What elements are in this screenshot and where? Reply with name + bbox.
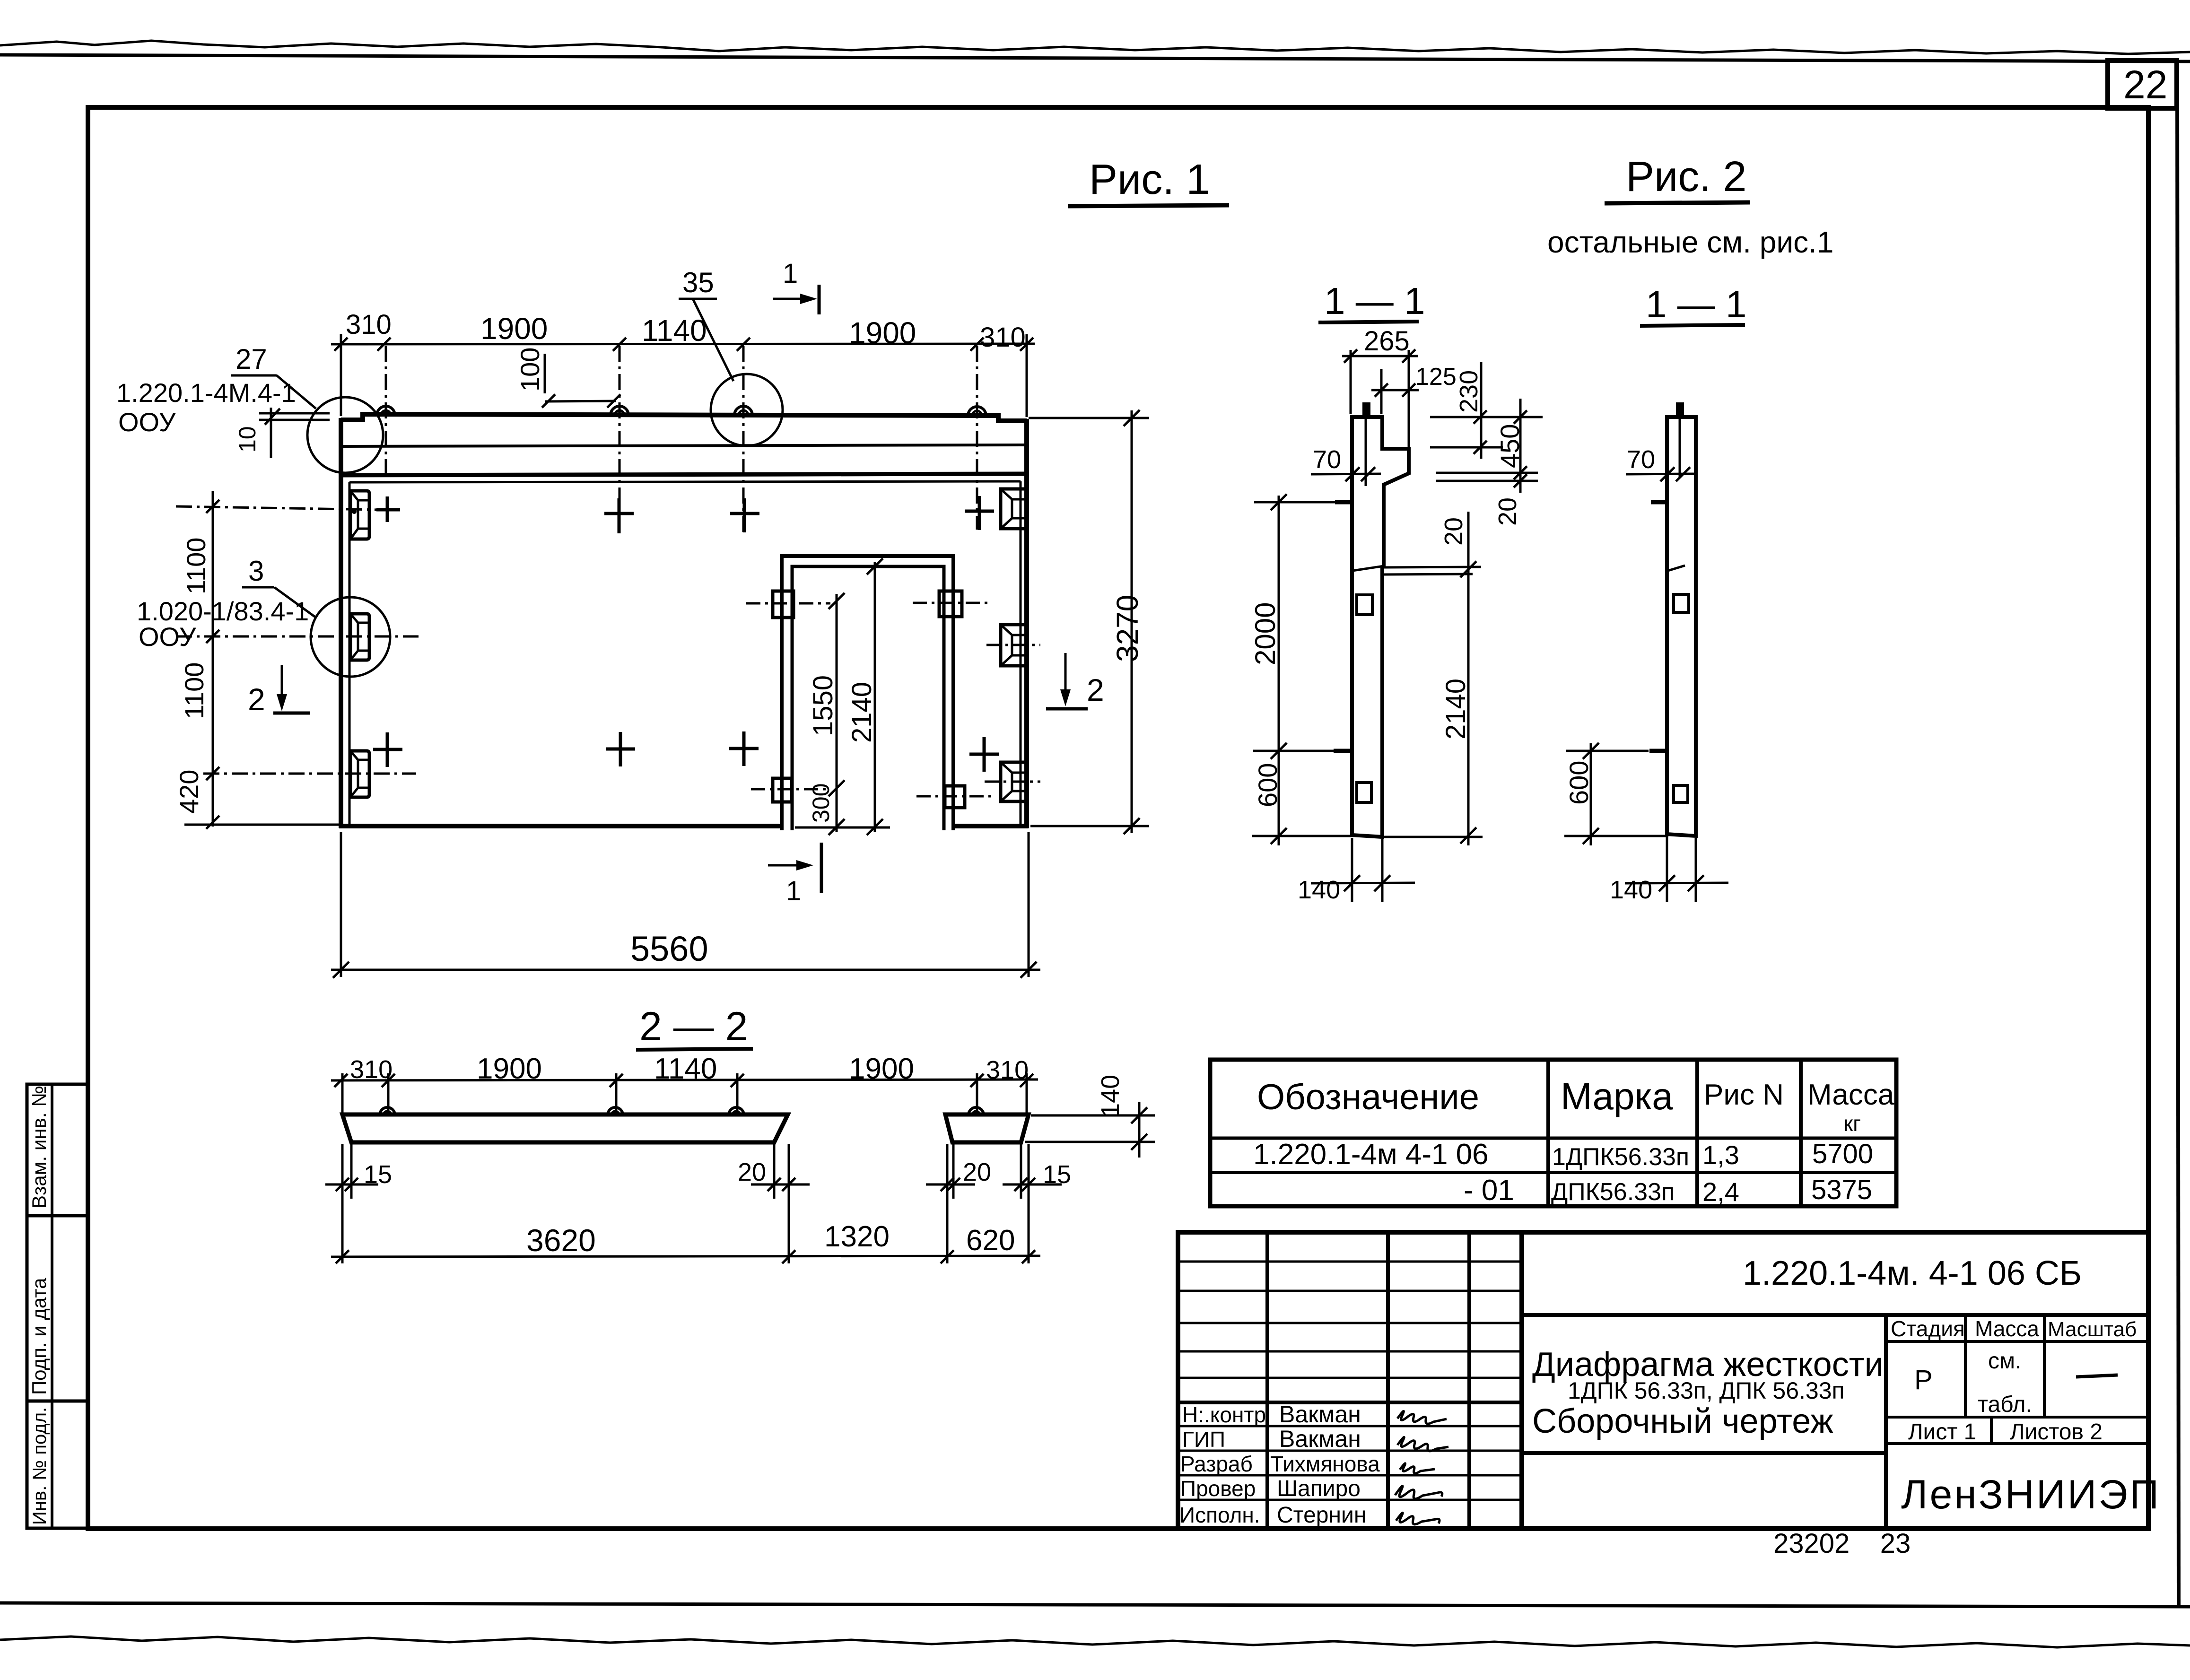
recess right line <box>1020 481 1022 825</box>
spec row line <box>1210 1171 1896 1174</box>
dim 5560 line <box>331 969 1040 971</box>
embed plate left 3 <box>350 751 369 797</box>
s11L ledge ext b <box>1384 574 1473 575</box>
s22 140 ext bottom <box>1025 1141 1155 1143</box>
s22 20 left ext a <box>773 1144 776 1199</box>
svg-text:20: 20 <box>963 1158 991 1186</box>
s11L 2000 tick bottom <box>1271 828 1287 844</box>
chain ext dashdot 2 <box>176 635 419 638</box>
s11R 600 tick top <box>1583 743 1599 759</box>
s22 lower dim line <box>331 1256 1040 1257</box>
svg-text:1.220.1-4м. 4-1 06 СБ: 1.220.1-4м. 4-1 06 СБ <box>1743 1254 2082 1292</box>
svg-text:Сборочный чертеж: Сборочный чертеж <box>1532 1402 1833 1440</box>
cross r2c1 <box>373 732 402 767</box>
s22 tick f <box>1020 1074 1033 1087</box>
s22 ext d <box>736 1073 739 1116</box>
s22 20 left tick b <box>782 1178 795 1191</box>
svg-text:3: 3 <box>248 555 264 587</box>
svg-text:1,3: 1,3 <box>1702 1140 1739 1170</box>
s11L tick hline top a <box>1474 410 1487 424</box>
embed plate right 1 <box>1001 489 1025 529</box>
svg-text:15: 15 <box>364 1160 392 1189</box>
svg-text:2: 2 <box>248 682 265 717</box>
spec col Марка <box>1546 1060 1550 1206</box>
svg-text:1 — 1: 1 — 1 <box>1324 280 1425 322</box>
svg-text:5375: 5375 <box>1811 1175 1872 1205</box>
spec col Рис N <box>1695 1060 1699 1206</box>
s11L vline 450 <box>1519 399 1522 493</box>
svg-text:27: 27 <box>236 343 267 375</box>
s22 lower tick a <box>336 1250 349 1263</box>
lifting loop 4 <box>968 407 986 416</box>
svg-text:Р: Р <box>1914 1365 1933 1395</box>
s11L dim 70 line <box>1311 474 1381 474</box>
svg-text:1.220.1-4м 4-1 06: 1.220.1-4м 4-1 06 <box>1253 1138 1489 1171</box>
sheet inner frame <box>88 107 2148 1529</box>
s11L 265 tick b <box>1402 349 1415 363</box>
section mark 2 top arrowhead <box>277 694 287 711</box>
header Стадия Масса Масштаб row line <box>1886 1340 2148 1343</box>
s11L tick hline top b <box>1514 410 1527 424</box>
section mark 1 bottom arrowhead <box>796 860 813 870</box>
s11L ext 600 top <box>1253 750 1335 752</box>
s11L 70 tick a <box>1345 467 1360 481</box>
s11L 125 tick b <box>1402 383 1415 397</box>
svg-text:2140: 2140 <box>846 682 877 743</box>
chain tick 4 <box>206 816 219 829</box>
s11L embed square 1 <box>1357 595 1372 615</box>
svg-text:кг: кг <box>1843 1111 1861 1136</box>
svg-text:Шапиро: Шапиро <box>1277 1476 1361 1501</box>
door embed bottom right axis <box>916 795 993 798</box>
s22 15 left ext a <box>341 1144 344 1263</box>
s22 ext c <box>615 1073 618 1116</box>
spec table outline <box>1210 1060 1896 1206</box>
svg-text:1100: 1100 <box>181 538 211 594</box>
strip divider vertical <box>51 1084 53 1528</box>
tick 2140 top <box>867 558 883 575</box>
s11L dim 2000-600 line <box>1278 496 1280 845</box>
ext 3270 top <box>1029 417 1149 419</box>
s22 15 left tick b <box>345 1178 358 1191</box>
svg-text:1.220.1-4М.4-1: 1.220.1-4М.4-1 <box>116 378 296 408</box>
svg-text:15: 15 <box>1043 1160 1071 1189</box>
embed plate left 1 dot <box>352 509 357 514</box>
svg-text:Инв. № подл.: Инв. № подл. <box>29 1407 50 1525</box>
svg-text:2: 2 <box>1087 672 1104 707</box>
svg-text:Взам. инв. №: Взам. инв. № <box>28 1086 50 1209</box>
cross r2c2 <box>606 732 635 766</box>
svg-text:Рис. 2: Рис. 2 <box>1626 153 1746 200</box>
ruled line top <box>0 55 2190 61</box>
svg-text:140: 140 <box>1096 1075 1125 1117</box>
s11L dim 265 line <box>1342 355 1418 357</box>
s11L ledge ext a <box>1384 567 1481 567</box>
s22 140 tick bottom <box>1131 1134 1147 1150</box>
embed plate right 2 axis <box>986 644 1040 646</box>
section mark 1 top arrow <box>773 298 807 300</box>
signature 1 <box>1397 1411 1447 1424</box>
s22 140 ext top <box>1031 1114 1155 1117</box>
chain tick 2 <box>206 630 219 643</box>
section mark 2 bottom bar <box>1046 707 1088 711</box>
detail circle 35 <box>711 374 783 446</box>
ext 2140 top <box>828 566 888 568</box>
section mark 1 top bar <box>818 285 821 314</box>
svg-text:3620: 3620 <box>526 1223 596 1258</box>
embed plate right 2 inner <box>1001 625 1025 666</box>
loop 4 centerline <box>976 346 978 530</box>
tick 310 right b <box>1020 338 1033 351</box>
tick 5560 right <box>1021 962 1037 978</box>
dim 10 tick <box>265 409 280 425</box>
section mark 2 bottom arrow <box>1064 653 1067 696</box>
s22 tick a <box>334 1074 348 1087</box>
s11L 2140 tick bottom <box>1460 827 1476 844</box>
tick 310 left b <box>377 338 391 351</box>
dim 2140 line <box>874 562 876 832</box>
svg-text:ГИП: ГИП <box>1182 1427 1225 1452</box>
recess left line <box>349 482 351 825</box>
lifting loop 1 <box>377 406 395 415</box>
s11R dim 600 line <box>1590 743 1592 845</box>
recess top line <box>349 481 1021 482</box>
s11L 70 tick b <box>1361 467 1375 481</box>
s11L 140 dim line <box>1311 883 1415 883</box>
svg-text:450: 450 <box>1495 424 1525 468</box>
embed plate left 2 inner <box>350 614 369 660</box>
s11R loop wire inner line <box>1679 418 1681 478</box>
lifting loop 2 <box>611 406 628 415</box>
svg-text:Подп. и дата: Подп. и дата <box>28 1278 50 1395</box>
torn paper edge top <box>0 41 2190 54</box>
cross r2c4 <box>969 737 999 772</box>
s11R pin bottom <box>1649 749 1667 753</box>
svg-text:1900: 1900 <box>849 1053 914 1085</box>
section mark 1 top arrowhead <box>800 294 817 304</box>
detail circle 3 <box>311 597 390 677</box>
embed plate left 1 <box>350 491 369 539</box>
tick 1140 b <box>737 338 750 351</box>
outer right border <box>2177 61 2179 1606</box>
loop 3 centerline <box>742 346 745 534</box>
s11L 140 tick b <box>1374 875 1390 891</box>
svg-text:10: 10 <box>234 426 261 453</box>
s22 lower tick b <box>782 1250 795 1263</box>
face top line <box>341 474 1027 475</box>
door embed top left <box>773 591 794 618</box>
s11L 2000 tick top <box>1271 494 1287 510</box>
svg-text:ДПК56.33п: ДПК56.33п <box>1551 1178 1675 1206</box>
section mark 2 bottom arrowhead <box>1060 689 1071 706</box>
svg-text:2 — 2: 2 — 2 <box>639 1004 748 1049</box>
strip cell Инв. № подл. <box>27 1401 87 1528</box>
s11R pin top <box>1651 500 1667 505</box>
section mark 1 bottom arrow <box>768 864 803 867</box>
cross r1c4 <box>965 496 994 530</box>
svg-text:1140: 1140 <box>642 313 707 348</box>
svg-text:70: 70 <box>1627 445 1655 474</box>
s22 20 right tick a <box>941 1178 954 1191</box>
s11L 265 tick a <box>1344 349 1357 363</box>
svg-text:600: 600 <box>1253 763 1283 807</box>
s22 15 right dim line <box>1003 1184 1062 1186</box>
svg-text:125: 125 <box>1415 363 1457 391</box>
s11R 140 dim line <box>1625 883 1728 883</box>
svg-text:Масштаб: Масштаб <box>2048 1318 2137 1341</box>
door embed bottom left <box>773 778 792 802</box>
signature 2 <box>1397 1437 1448 1451</box>
svg-text:Н:.контр: Н:.контр <box>1182 1402 1266 1427</box>
door embed top right <box>939 591 962 617</box>
svg-text:1100: 1100 <box>179 662 209 719</box>
svg-text:300: 300 <box>808 783 834 823</box>
svg-text:20: 20 <box>1440 517 1468 546</box>
svg-text:1900: 1900 <box>477 1053 542 1085</box>
list divider <box>1990 1417 1993 1444</box>
s22 dim 140 line <box>1138 1102 1141 1158</box>
svg-text:310: 310 <box>350 1055 393 1084</box>
embed plate right 1 inner <box>1001 489 1025 529</box>
s11L 140 tick a <box>1344 875 1360 891</box>
svg-text:1: 1 <box>786 876 801 906</box>
dim 100 underline <box>544 354 546 393</box>
s11L ext 265 left <box>1350 350 1352 414</box>
opening bottom ext <box>795 827 890 829</box>
line under doc number <box>1522 1313 2148 1317</box>
s11L dim 2140 line <box>1467 512 1470 845</box>
svg-text:- 01: - 01 <box>1464 1174 1514 1207</box>
s11R ext 600 bottom <box>1564 835 1668 837</box>
svg-text:310: 310 <box>980 322 1026 353</box>
s11L ext 265 right <box>1408 350 1410 447</box>
chain tick 1 <box>206 500 219 513</box>
s11R loop stub <box>1676 402 1684 418</box>
s11R 140 tick a <box>1659 875 1675 891</box>
tick 5560 left <box>333 962 349 978</box>
svg-text:Обозначение: Обозначение <box>1257 1077 1479 1117</box>
s11L ledge line <box>1352 566 1384 571</box>
callout 3 underline <box>242 586 274 589</box>
chain ext bottom <box>184 824 340 826</box>
dim 10 stem <box>270 408 272 458</box>
s11L tick dbl b <box>1514 474 1527 487</box>
s22 ext b <box>387 1073 390 1116</box>
section mark 2 top arrow <box>281 665 283 701</box>
lifting loop 3 <box>734 406 752 415</box>
signature 5 <box>1396 1513 1440 1524</box>
callout 35 leader <box>693 300 733 381</box>
loop 2 centerline <box>619 346 621 534</box>
s11L tick dbl a <box>1514 466 1527 479</box>
svg-text:Стернин: Стернин <box>1277 1503 1366 1528</box>
s22 20 right dim line <box>926 1184 975 1186</box>
s22 lower tick d <box>1022 1250 1035 1263</box>
strip cell Взам. инв. № <box>27 1084 87 1216</box>
s11R 600 tick bottom <box>1583 828 1599 844</box>
door embed top left axis <box>746 602 830 605</box>
dim 10 line a <box>259 412 330 415</box>
s11R ext 600 top <box>1566 750 1649 752</box>
door opening inner <box>792 566 944 830</box>
s22 tick e <box>970 1074 984 1087</box>
stadia column divider <box>1884 1315 1888 1528</box>
chain ext dashdot 1 <box>176 506 378 510</box>
s11L loop stub <box>1362 402 1370 418</box>
svg-text:140: 140 <box>1298 876 1340 904</box>
cross r1c2 <box>604 498 634 533</box>
line above list row <box>1886 1416 2148 1419</box>
s11L dbl hline b <box>1436 480 1538 482</box>
svg-text:70: 70 <box>1313 445 1341 474</box>
s11L pin top <box>1335 500 1352 505</box>
embed plate left 2 <box>350 614 369 660</box>
panel bottom edge left of opening <box>339 824 782 828</box>
svg-text:ООУ: ООУ <box>118 407 176 437</box>
svg-text:1 — 1: 1 — 1 <box>1646 283 1746 325</box>
tick 1550 top <box>829 593 845 609</box>
svg-text:Масса: Масса <box>1807 1079 1894 1111</box>
page number box 22 <box>2108 61 2177 108</box>
s11L right hline mid <box>1430 446 1503 449</box>
dim 3270 line <box>1131 410 1133 833</box>
panel left edge <box>339 418 343 828</box>
s11R 140 tick b <box>1688 875 1704 891</box>
s22 20 left tick a <box>768 1178 781 1191</box>
svg-text:1ДПК56.33п: 1ДПК56.33п <box>1552 1143 1689 1171</box>
s11R profile <box>1667 417 1696 836</box>
heading 1-1 right underline <box>1640 325 1745 326</box>
svg-text:600: 600 <box>1564 761 1594 805</box>
svg-text:Марка: Марка <box>1561 1075 1673 1117</box>
s11R 140 ext a <box>1666 837 1668 902</box>
svg-text:1900: 1900 <box>849 316 916 350</box>
s11L loop wire inner line <box>1365 418 1367 486</box>
svg-text:Исполн.: Исполн. <box>1179 1503 1260 1527</box>
s11L tick hline mid <box>1474 441 1487 454</box>
s22 loop 1 <box>380 1107 395 1115</box>
s22 tick c <box>610 1074 623 1087</box>
svg-text:остальные см. рис.1: остальные см. рис.1 <box>1547 225 1833 259</box>
s11R 140 ext b <box>1695 838 1697 902</box>
s22 15 right tick a <box>1014 1178 1028 1191</box>
spec col Масса <box>1799 1060 1803 1206</box>
s22 ext f <box>1026 1073 1028 1116</box>
s22 ext a <box>341 1073 344 1116</box>
svg-text:Листов 2: Листов 2 <box>2010 1419 2103 1445</box>
svg-text:1ДПК 56.33п, ДПК 56.33п: 1ДПК 56.33п, ДПК 56.33п <box>1568 1377 1845 1404</box>
cross r1c3 <box>730 498 759 532</box>
chain ext dashdot 3 <box>203 773 416 775</box>
ext 3270 bottom <box>1030 825 1149 827</box>
heading underline <box>1068 205 1229 206</box>
svg-text:3270: 3270 <box>1110 595 1144 662</box>
tick 300 bottom <box>829 819 845 835</box>
signature 4 <box>1395 1486 1442 1499</box>
signature 3 <box>1400 1463 1435 1473</box>
panel bottom edge right of opening <box>953 824 1029 828</box>
tick 3270 top <box>1124 410 1140 426</box>
svg-text:100: 100 <box>515 348 545 392</box>
svg-text:2000: 2000 <box>1249 602 1281 665</box>
cross r2c3 <box>729 731 759 766</box>
svg-text:Провер: Провер <box>1180 1476 1256 1501</box>
line under titles <box>1522 1451 1886 1455</box>
s11L dim 125 line <box>1371 389 1419 392</box>
svg-text:2140: 2140 <box>1440 679 1471 740</box>
s11L 140 ext a <box>1351 838 1353 902</box>
title block verticals left part <box>1265 1232 1269 1528</box>
svg-text:2,4: 2,4 <box>1702 1177 1739 1207</box>
s11R embed square 2 <box>1674 785 1688 802</box>
svg-text:22: 22 <box>2123 62 2167 107</box>
svg-text:20: 20 <box>738 1158 766 1186</box>
section mark 1 bottom bar <box>820 843 823 893</box>
title block outline <box>1178 1232 2148 1528</box>
chain tick 3 <box>206 767 219 780</box>
svg-text:5560: 5560 <box>630 929 708 968</box>
s22 lower tick c <box>941 1250 954 1263</box>
strip cell Подп. и дата <box>27 1216 87 1401</box>
ruled line bottom <box>0 1603 2190 1607</box>
s22 15 right tick b <box>1022 1178 1035 1191</box>
dim 100 line <box>545 401 616 401</box>
s22 15 left ext b <box>350 1144 353 1199</box>
svg-text:1900: 1900 <box>480 312 548 346</box>
cross r1c1 <box>376 496 400 522</box>
embed plate right 2 <box>1001 625 1025 666</box>
tick 310 right a <box>970 338 984 351</box>
detail circle 27 <box>307 397 383 473</box>
ext line panel right top <box>1026 334 1028 417</box>
s11L right hline top <box>1430 416 1543 418</box>
heading 1-1 left underline <box>1318 322 1419 322</box>
embed plate left 1 inner <box>350 491 369 539</box>
embed plate right 3 inner <box>1001 762 1025 801</box>
svg-text:1: 1 <box>783 258 798 289</box>
top flange underside line <box>342 445 1025 446</box>
title block rows <box>1178 1261 1522 1263</box>
svg-text:420: 420 <box>174 770 204 814</box>
svg-text:310: 310 <box>986 1056 1029 1084</box>
s22 tick d <box>731 1074 744 1087</box>
tick 310 left a <box>334 338 348 351</box>
left dim chain line <box>212 491 214 827</box>
top dimension line <box>331 344 1035 344</box>
panel right edge <box>1024 419 1029 828</box>
svg-text:230: 230 <box>1455 370 1483 413</box>
svg-text:140: 140 <box>1610 876 1652 904</box>
heading Рис 2 underline <box>1605 202 1750 203</box>
svg-text:1550: 1550 <box>808 675 838 736</box>
svg-text:Масса: Масса <box>1975 1316 2039 1341</box>
s22 15 right ext b <box>1028 1144 1030 1263</box>
svg-text:Вакман: Вакман <box>1279 1401 1361 1428</box>
embed plate left 3 inner <box>350 751 369 797</box>
svg-text:620: 620 <box>966 1224 1015 1257</box>
svg-text:Стадия: Стадия <box>1891 1316 1965 1341</box>
dim 100 tick a <box>542 394 555 408</box>
s11R dim 70 line <box>1626 474 1694 474</box>
s11R 70 tick a <box>1660 467 1675 481</box>
svg-text:Лист 1: Лист 1 <box>1908 1419 1976 1445</box>
s11L 2140 ext bottom <box>1383 836 1483 838</box>
svg-text:Тихмянова: Тихмянова <box>1270 1452 1380 1476</box>
s22 20 left ext b <box>788 1144 790 1263</box>
callout 27 leader <box>277 375 316 409</box>
svg-text:Рис N: Рис N <box>1704 1079 1784 1111</box>
s11L ext bottom <box>1252 835 1353 837</box>
